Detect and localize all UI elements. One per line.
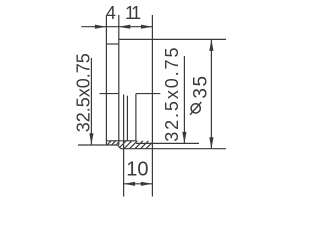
arrowhead 11-dim right (points right) [141,25,153,29]
svg-text:35: 35 [191,74,212,98]
arrowhead Ø35 down [209,137,213,149]
arrowhead Ø35 up [209,39,213,51]
wire Ø35 dim line [210,40,212,149]
svg-text:4: 4 [106,3,116,23]
wire internal vertical 3 [135,94,137,141]
label diameter symbol of Ø35 [190,102,201,115]
wire extension line left (x=106.4 top) and flange left edge [105,16,107,146]
arrowhead 4-dim outside left (points right) [95,25,107,29]
wire extension/edge x=118.8 [118,15,120,145]
wire left label dim line [90,58,92,145]
wire centerline dash right [136,93,160,95]
wire body bottom edge + Ø35 bottom extension [121,148,226,150]
wire hatching body [120,141,127,148]
arrowhead left label (points down) [89,133,93,145]
wire step diagonal [118,145,121,149]
wire body top edge + Ø35 top extension [119,38,226,40]
arrowhead 10-dim left (points left) [124,182,136,186]
wire internal vertical / 10-dim left extension [123,95,125,197]
svg-text:32.5x0.75: 32.5x0.75 [73,53,93,132]
wire 10 dim line [124,183,153,185]
wire bore line [106,140,136,142]
wire hatching flange [107,141,111,145]
wire internal vertical 2 [126,96,128,141]
wire middle label dim line [183,56,185,143]
arrowhead 11-dim left (points left) [119,25,131,29]
wire centerline dash left [100,93,119,95]
wire flange top edge [106,43,118,45]
wire flange bottom edge + left extension [78,144,118,146]
wire internal thread line + right extension [136,142,199,144]
svg-text:10: 10 [126,158,148,180]
arrowhead middle label (points down) [182,132,186,144]
svg-text:11: 11 [125,3,141,23]
arrowhead 10-dim right (points right) [141,182,153,186]
wire dimension line 4/11 [81,26,152,28]
svg-text:32.5x0.75: 32.5x0.75 [162,46,182,142]
wire extension/edge x=152.4 [151,15,153,197]
